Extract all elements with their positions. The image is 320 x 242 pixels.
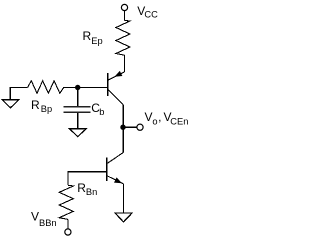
resistor R_Bp [28,81,64,93]
svg-text:Bp: Bp [41,104,52,114]
wire Qn emitter to ground [123,184,125,213]
svg-text:CEn: CEn [170,117,188,127]
wire R_Ep to Qp emitter [124,55,126,72]
pnp transistor Qp [108,71,125,105]
label V_CC [137,4,158,20]
svg-text:CC: CC [144,10,158,20]
svg-text:Bn: Bn [86,187,97,197]
wire node to output terminal [123,126,137,128]
svg-text:R: R [77,181,86,195]
label C_b [91,101,104,117]
wire Qp collector to output node [122,105,124,127]
wire VCC to R_Ep [124,11,126,21]
svg-text:,: , [158,110,161,124]
resistor R_Bn [59,185,73,219]
terminal V_BBn [65,229,71,235]
npn transistor Qn [107,153,124,184]
label V_o, V_CEn [145,110,189,127]
terminal Vo [137,124,143,130]
svg-text:BBn: BBn [39,218,57,228]
label R_Bp [31,98,52,114]
resistor R_Ep [116,20,130,55]
svg-text:o: o [152,116,157,126]
label R_Bn [77,181,97,197]
svg-text:b: b [99,107,104,117]
label R_Ep [83,29,103,46]
wire output node down to Qn collector [122,127,124,152]
ground (below C_b) [69,129,86,137]
capacitor C_b [64,88,91,129]
svg-text:Ep: Ep [91,36,102,46]
junction node at base [75,85,80,90]
ground (bottom) [115,213,132,222]
wire base Qn to R_Bn [68,172,107,186]
label V_BBn [31,210,57,228]
terminal VCC [121,4,127,10]
wire base Qp (from node to bar) [64,87,108,89]
ground (left) [2,88,27,108]
svg-text:R: R [83,29,92,43]
svg-text:V: V [145,110,153,124]
junction node at output [120,125,125,130]
svg-text:V: V [31,210,39,224]
svg-text:R: R [31,98,40,112]
wire R_Bn to terminal [67,219,69,229]
